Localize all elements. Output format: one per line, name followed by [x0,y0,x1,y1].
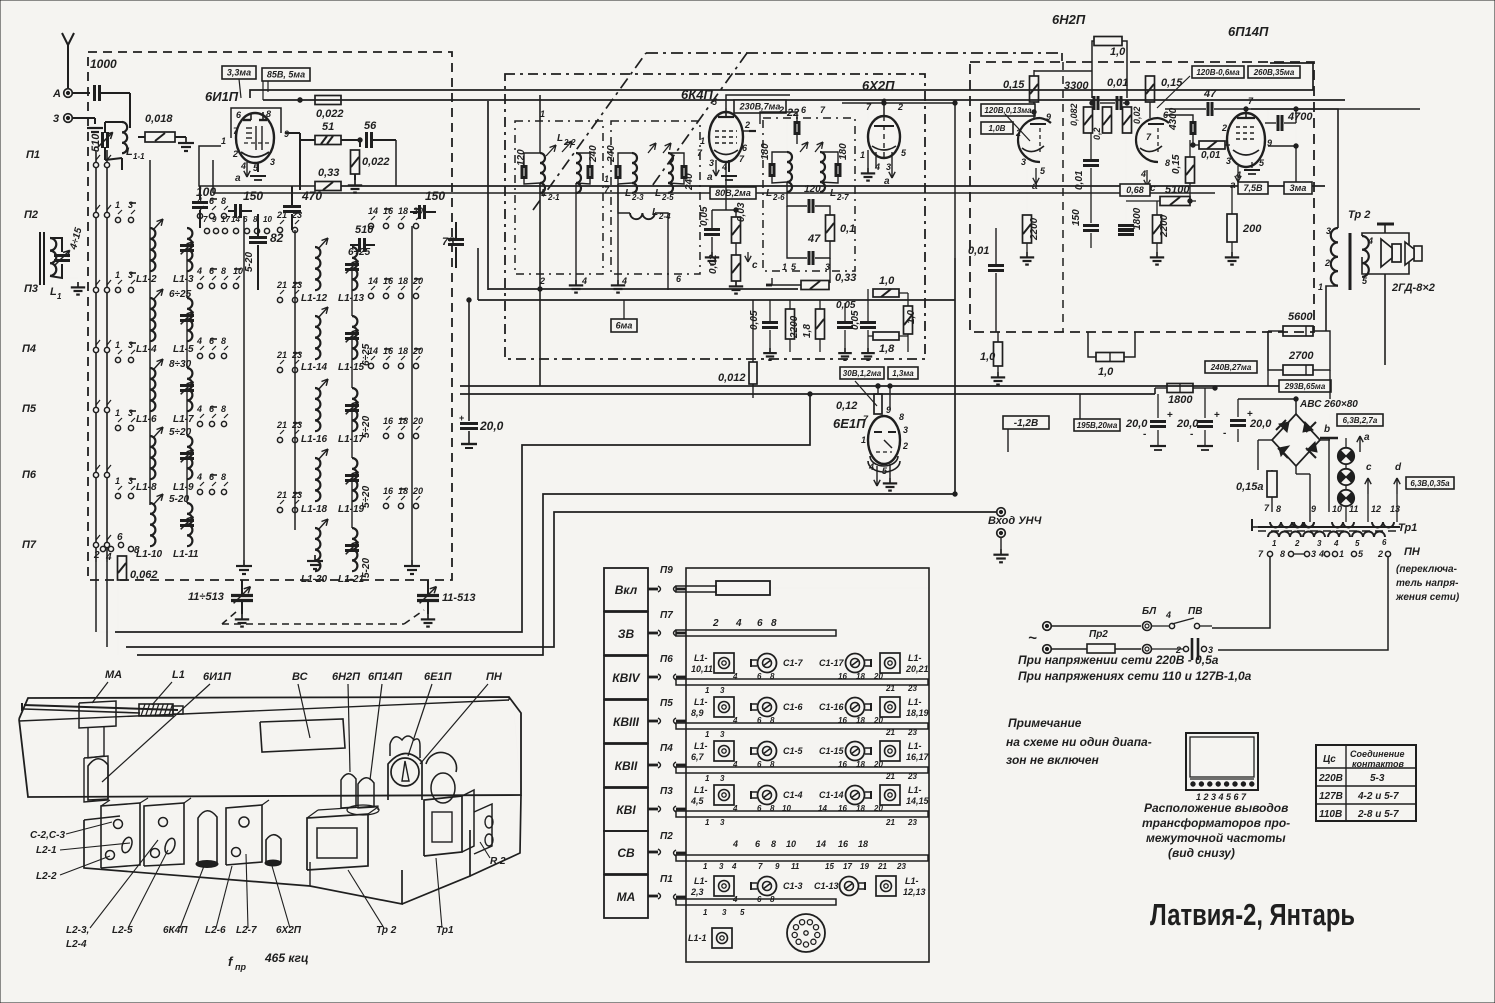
svg-text:5-20: 5-20 [244,252,255,272]
ground [411,560,413,566]
svg-text:2: 2 [778,105,784,115]
svg-text:4: 4 [1318,549,1324,559]
svg-text:3: 3 [128,476,133,486]
wire bus B [126,512,996,647]
svg-text:10,11: 10,11 [691,664,713,674]
svg-text:3: 3 [128,270,133,280]
tuning arrow [153,359,163,370]
switch contact 8 [221,213,226,218]
svg-text:13: 13 [1390,504,1400,514]
measurement box 240В,27ма [1205,361,1257,373]
svg-text:8: 8 [771,839,776,849]
resistor 0,02 [1123,107,1132,133]
coil L2-5 [668,153,673,193]
resistor 0,082 [1084,107,1093,133]
wire grid [1268,145,1296,147]
switch contact 6 [209,213,214,218]
svg-text:П9: П9 [660,565,673,576]
switch contact 3 [128,425,133,430]
wire [341,185,1325,187]
svg-text:(вид снизу): (вид снизу) [1168,846,1235,860]
wire plate to Тр2 [1251,109,1338,228]
svg-text:6П14П: 6П14П [368,671,403,683]
svg-text:20: 20 [412,416,423,426]
coil L1-5 [187,298,192,341]
svg-text:1,3ма: 1,3ма [892,369,914,378]
capacitor 20,0 third [1230,419,1246,422]
switch contact 16 [383,503,388,508]
wire [411,226,413,560]
switch contact 18 [398,223,403,228]
svg-text:20: 20 [412,276,423,286]
coil L1-16 [315,388,320,431]
svg-text:2200: 2200 [1159,214,1170,238]
coil L1-4 [150,298,155,341]
coil L1-12 [315,247,320,290]
coil L1-1 [122,122,127,153]
wire [285,132,300,134]
svg-text:2200: 2200 [1029,217,1040,241]
svg-text:3: 3 [1021,157,1026,167]
svg-text:4-2 и 5-7: 4-2 и 5-7 [1357,791,1399,802]
tube socket bottom view [787,914,825,952]
svg-text:L1-: L1- [694,697,708,707]
svg-text:8: 8 [221,472,226,482]
svg-text:L1-1: L1-1 [688,933,707,943]
svg-text:5÷20: 5÷20 [169,427,192,438]
svg-text:21: 21 [276,490,287,500]
triode 6Н2П right [1136,118,1158,162]
switch contact 20 [413,363,418,368]
svg-text:10: 10 [233,266,243,276]
ground [735,281,737,286]
c arrow [747,252,749,262]
wire screen [745,124,760,137]
svg-text:1: 1 [700,136,705,146]
svg-text:L: L [541,188,547,199]
resistor 2200 right [1153,215,1162,243]
wire [1214,388,1216,394]
svg-text:П4: П4 [22,343,36,355]
svg-text:1: 1 [861,435,866,445]
svg-text:П3: П3 [660,786,673,797]
switch contact 23 [292,297,297,302]
trimmer pad right [880,785,900,805]
transformer Тр1 primary [1268,532,1301,538]
wire vertical bus left [95,150,97,562]
resistor 2200 [786,309,795,339]
svg-text:3300: 3300 [1064,80,1089,92]
svg-text:1: 1 [860,150,865,160]
svg-text:4: 4 [196,472,202,482]
svg-text:КВI: КВI [616,803,636,817]
trimmer capacitor С1-17 [846,654,865,673]
dashed box IF section [505,74,925,359]
wafer bar stub [676,588,686,591]
svg-text:0,082: 0,082 [1069,103,1079,126]
svg-text:2-6: 2-6 [772,193,785,202]
svg-text:Пр2: Пр2 [1089,629,1108,640]
svg-text:120В,0,13ма: 120В,0,13ма [984,106,1032,115]
svg-text:1: 1 [705,818,710,827]
svg-text:150: 150 [243,189,263,203]
wire [199,179,315,186]
svg-text:4: 4 [196,336,202,346]
IF can 1 [101,803,140,868]
coil L1-15 [352,316,357,359]
svg-text:С1-3: С1-3 [783,881,803,891]
coil L1-2 [150,228,155,271]
wire [726,95,790,108]
svg-text:6Е1П: 6Е1П [833,416,866,431]
svg-text:2: 2 [1377,549,1383,559]
svg-text:L1-3: L1-3 [173,274,194,285]
svg-text:16: 16 [383,486,394,496]
trimmer pad L1-8,9 [714,697,734,717]
svg-text:с: с [752,260,758,271]
tuning arrow [153,494,163,505]
ground [889,464,891,478]
switch contact on bus [93,212,98,217]
svg-text:120: 120 [804,184,821,195]
svg-text:Расположение выводов: Расположение выводов [1144,801,1288,815]
switch contact 20 [413,223,418,228]
svg-text:зон не включен: зон не включен [1006,753,1100,767]
svg-text:L: L [830,188,836,199]
svg-text:3: 3 [720,686,725,695]
svg-text:-: - [1223,428,1226,439]
svg-text:9: 9 [1311,504,1316,514]
svg-text:П6: П6 [22,469,37,481]
switch button КВIV [604,656,648,699]
wire [294,230,296,530]
wire bus A [115,394,810,632]
svg-text:1: 1 [540,109,545,119]
svg-text:L1-: L1- [908,653,922,663]
trimmer capacitor 5÷20 [345,474,359,477]
svg-text:9: 9 [775,862,780,871]
svg-text:11-513: 11-513 [442,592,475,604]
svg-text:ПВ: ПВ [1188,606,1202,617]
measurement box 1,3ма [888,367,918,379]
switch contact 6 [209,489,214,494]
wafer bar КВI [676,811,928,817]
svg-text:8: 8 [221,336,226,346]
svg-text:8: 8 [221,196,226,206]
svg-text:L1-8: L1-8 [136,482,157,493]
switch button КВII [604,744,648,787]
switch contact 4 [197,489,202,494]
triode 6Н2П left [1018,118,1040,162]
chassis deck [84,820,402,904]
svg-text:Тр1: Тр1 [1398,522,1417,534]
svg-text:465 кгц: 465 кгц [264,951,309,965]
svg-text:1,0В: 1,0В [989,124,1006,133]
svg-text:+: + [1167,410,1173,421]
coil L1-10 [150,503,155,546]
svg-text:Латвия-2, Янтарь: Латвия-2, Янтарь [1150,897,1355,932]
svg-text:L1-12: L1-12 [301,293,328,304]
svg-text:+: + [1214,410,1220,421]
svg-text:1: 1 [115,476,120,486]
svg-text:30В,1,2ма: 30В,1,2ма [843,369,882,378]
svg-text:8: 8 [221,266,226,276]
svg-text:С1-7: С1-7 [783,658,804,668]
svg-text:1800: 1800 [1168,394,1193,406]
switch contact 4 [197,283,202,288]
resistor 0,33 [315,182,341,191]
svg-text:4: 4 [874,162,880,172]
switch contact 14 [368,293,373,298]
svg-text:АВС 260×80: АВС 260×80 [1299,399,1358,410]
svg-text:трансформаторов про-: трансформаторов про- [1142,816,1290,830]
svg-text:4700: 4700 [1287,111,1313,123]
switch contact on bus [93,542,98,547]
resistor 1,0 vertical [904,306,913,334]
svg-text:L2-1: L2-1 [36,845,57,856]
dial lamps [1338,448,1354,464]
wafer bar stub [676,676,686,679]
ground [575,280,577,285]
svg-text:6: 6 [117,532,123,543]
switch contact 1 [115,287,120,292]
svg-text:8: 8 [134,545,140,556]
svg-text:4300: 4300 [1168,107,1179,131]
dashed box L2-3 L2-5 [611,121,700,274]
wafer bar Вкл [676,586,716,592]
svg-text:2-3: 2-3 [631,193,644,202]
ground [617,280,619,285]
svg-text:2: 2 [1294,539,1300,548]
svg-text:С1-15: С1-15 [819,746,845,756]
cathode arrow [715,160,717,176]
switch contact 1 [115,357,120,362]
measurement box 80В,2ма [710,187,756,199]
switch contact 18 [398,363,403,368]
svg-text:3: 3 [825,262,830,272]
svg-text:1: 1 [115,340,120,350]
svg-text:260В,35ма: 260В,35ма [1253,68,1295,77]
cathode arrow [1035,168,1037,184]
svg-text:6,3В,2,7а: 6,3В,2,7а [1343,416,1378,425]
svg-text:14: 14 [368,276,378,286]
switch contact 8 [221,489,226,494]
svg-text:L2-7: L2-7 [236,925,257,936]
svg-text:4: 4 [731,862,737,871]
svg-text:15: 15 [825,862,834,871]
wire [213,192,1215,194]
svg-text:0,022: 0,022 [316,108,344,120]
plate bar [749,130,756,132]
svg-text:С1-16: С1-16 [819,702,845,712]
measurement box 260В,35ма [1248,66,1300,78]
svg-text:21: 21 [276,280,287,290]
svg-text:0,33: 0,33 [318,167,339,179]
section divider diagonal [652,53,747,186]
wire [149,160,151,505]
cathode arrow [246,162,248,177]
svg-text:1800: 1800 [1132,207,1143,230]
svg-text:293В,65ма: 293В,65ма [1284,382,1326,391]
svg-text:6К4П: 6К4П [681,87,713,102]
svg-text:1: 1 [703,862,708,871]
capacitor 1800 [1118,224,1134,227]
switch contact 14 [368,363,373,368]
svg-text:18: 18 [398,416,408,426]
switch contact 23 [292,367,297,372]
tube 6П14П [1227,113,1265,167]
svg-text:5600: 5600 [1288,311,1313,323]
tuning arrow [153,427,163,438]
switch contact 16 [383,433,388,438]
svg-text:L1-4: L1-4 [136,344,157,355]
svg-text:С-2,С-3: С-2,С-3 [30,830,65,841]
svg-text:КВIV: КВIV [612,671,640,685]
terminal input 2 [997,529,1006,538]
wire screen bus [263,99,1345,101]
wire [1251,108,1420,110]
tuning arrows [648,143,656,153]
switch contact 18 [398,433,403,438]
svg-text:8÷30: 8÷30 [169,359,192,370]
wire [72,92,90,94]
svg-text:L: L [655,188,661,199]
wire [829,258,831,283]
svg-text:5-20: 5-20 [361,558,372,578]
svg-text:21: 21 [276,350,287,360]
svg-text:3: 3 [886,162,891,172]
svg-text:Цс: Цс [1323,754,1336,765]
svg-text:23: 23 [291,350,302,360]
svg-text:80В,2ма: 80В,2ма [715,188,751,198]
svg-text:10: 10 [1332,504,1342,514]
switch contact 4 [197,421,202,426]
wafer bar stub [676,632,686,635]
svg-text:а: а [707,172,713,183]
svg-text:L1-18: L1-18 [301,504,328,515]
svg-text:L1-9: L1-9 [173,482,194,493]
coil L1-17 [352,388,357,431]
resistor 2200 [1023,215,1032,243]
switch contact 3 [128,357,133,362]
svg-text:1,8: 1,8 [802,324,813,338]
wire [95,562,97,632]
svg-text:а: а [884,176,890,187]
svg-text:2,3: 2,3 [690,887,704,897]
ferrite antenna L1 [39,232,41,285]
svg-text:L1-14: L1-14 [301,362,328,373]
svg-text:4: 4 [1140,169,1146,179]
coil L1-14 [315,316,320,359]
wire [786,112,788,152]
svg-text:1,0: 1,0 [879,275,895,287]
tube box [231,108,281,138]
svg-text:220В: 220В [1318,773,1343,784]
wire Тр2 primary bottom [1326,286,1338,331]
switch contact 21 [277,367,282,372]
wafer bar КВII [676,767,928,773]
svg-text:23: 23 [291,280,302,290]
switch contact 20 [413,293,418,298]
svg-text:1: 1 [1272,539,1277,548]
svg-text:3: 3 [720,818,725,827]
svg-text:КВIII: КВIII [613,715,640,729]
svg-text:5÷20: 5÷20 [361,415,372,438]
svg-text:180: 180 [760,143,771,160]
cathode arrow [1146,170,1148,186]
switch contact 4 [197,213,202,218]
ground [867,168,869,173]
speaker 2ГД-8x2 right [1414,246,1422,261]
trimmer capacitor 6÷25 [345,332,359,335]
svg-text:L1-: L1- [694,876,708,886]
svg-text:240: 240 [606,145,617,163]
coil L1-7 [187,368,192,411]
svg-text:2: 2 [902,441,908,451]
ground [257,162,259,172]
svg-text:1,0: 1,0 [1110,46,1126,58]
wire [877,386,879,394]
connector stub [648,808,658,811]
coil L2-2 [576,153,581,193]
box 6,3В,0,35а [1406,477,1454,489]
coil L1-20 [315,528,320,571]
svg-text:L1-: L1- [908,741,922,751]
svg-text:0,01: 0,01 [1074,170,1085,190]
trimmer capacitor С1-16 [846,698,865,717]
svg-text:П4: П4 [660,743,673,754]
svg-text:с: с [1366,462,1372,473]
svg-text:3: 3 [270,157,275,167]
svg-text:0,15: 0,15 [1161,77,1183,89]
terminal 3 [64,114,73,123]
svg-text:(переключа-: (переключа- [1396,564,1458,575]
svg-text:2: 2 [232,149,238,159]
svg-text:2-5: 2-5 [661,193,674,202]
ground [62,277,78,279]
svg-text:L1-7: L1-7 [173,414,194,425]
svg-text:L1-6: L1-6 [136,414,157,425]
variable capacitor 11-513 [417,594,439,597]
tuning arrow [318,238,328,249]
resistor 1,0 top [1094,37,1122,46]
svg-text:1: 1 [221,136,226,146]
svg-text:0,15: 0,15 [1171,154,1182,174]
tuning arrow [153,219,163,230]
measurement box 85В, 5ма [262,68,310,81]
connection table [1316,745,1416,821]
svg-text:~: ~ [1028,630,1037,647]
switch contact 1 [115,425,120,430]
tuning arrows [800,142,808,152]
svg-text:16: 16 [383,206,394,216]
svg-text:1,0: 1,0 [906,310,917,324]
tuning gang link [222,612,236,624]
svg-text:L2-3,: L2-3, [66,925,89,936]
svg-text:3: 3 [720,774,725,783]
svg-text:С1-6: С1-6 [783,702,804,712]
svg-text:При напряжениях сети 110 и 12: При напряжениях сети 110 и 127В-1,0а [1018,669,1252,683]
svg-text:0,12: 0,12 [836,400,857,412]
svg-text:L1-20: L1-20 [301,574,328,585]
svg-text:ПН: ПН [486,671,503,683]
wire [1258,439,1272,441]
svg-text:4: 4 [1367,236,1373,246]
wire plate bus [250,63,1313,98]
svg-text:0,05: 0,05 [850,310,861,330]
svg-text:3: 3 [1317,539,1322,548]
chassis back beam [19,697,521,797]
